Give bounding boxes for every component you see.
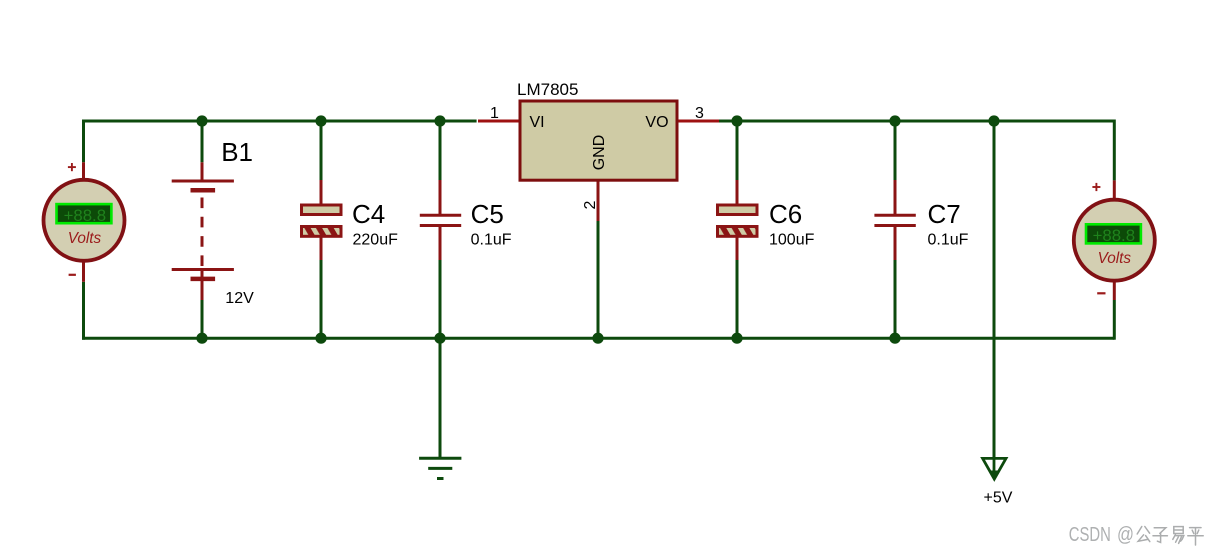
- svg-text:+88.8: +88.8: [64, 206, 106, 225]
- svg-text:100uF: 100uF: [769, 232, 815, 249]
- svg-text:0.1uF: 0.1uF: [928, 232, 969, 249]
- svg-text:GND: GND: [591, 135, 608, 171]
- svg-text:Volts: Volts: [68, 230, 102, 247]
- svg-text:220uF: 220uF: [353, 232, 399, 249]
- svg-text:@: @: [1117, 524, 1134, 546]
- svg-text:VI: VI: [530, 114, 545, 131]
- svg-text:+5V: +5V: [984, 490, 1013, 507]
- svg-text:3: 3: [695, 105, 704, 122]
- svg-text:C5: C5: [471, 199, 504, 229]
- svg-text:C6: C6: [769, 199, 802, 229]
- svg-text:CSDN: CSDN: [1069, 524, 1111, 546]
- svg-text:2: 2: [582, 200, 599, 209]
- svg-text:B1: B1: [221, 137, 253, 167]
- svg-text:C4: C4: [352, 199, 385, 229]
- svg-text:VO: VO: [645, 114, 668, 131]
- svg-text:LM7805: LM7805: [517, 80, 578, 99]
- svg-text:0.1uF: 0.1uF: [471, 232, 512, 249]
- svg-text:C7: C7: [928, 199, 961, 229]
- svg-text:12V: 12V: [225, 290, 254, 307]
- svg-text:+88.8: +88.8: [1093, 226, 1135, 245]
- svg-text:Volts: Volts: [1098, 250, 1132, 267]
- svg-text:1: 1: [490, 105, 499, 122]
